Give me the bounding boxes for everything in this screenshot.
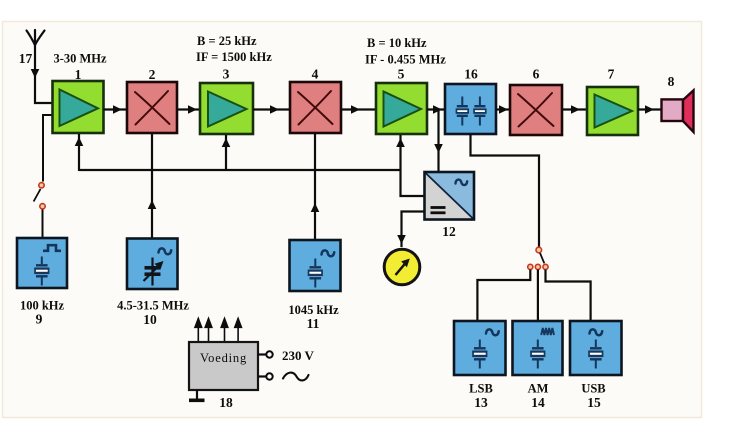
label 1 (75, 67, 82, 82)
label B = 10 kHz (367, 36, 427, 50)
svg-text:12: 12 (442, 224, 456, 239)
label 17 (19, 51, 33, 66)
wire block16 to mode switch (471, 134, 540, 247)
block 16 crystal filter (445, 84, 496, 134)
wire block1 to block2 (104, 105, 128, 114)
svg-text:AM: AM (528, 382, 549, 396)
svg-text:10: 10 (143, 312, 157, 327)
wire block2 LO input from block 10 (148, 133, 157, 238)
svg-text:Voeding: Voeding (200, 351, 247, 365)
label 9 (36, 312, 43, 327)
block 9 calibrator 100 kHz (17, 238, 67, 288)
label 13 (474, 395, 488, 410)
switch S1 (calibration) (34, 183, 46, 209)
label B = 25 kHz (197, 34, 257, 48)
svg-text:18: 18 (219, 395, 233, 410)
S-meter (384, 249, 420, 285)
block 14 AM crystal (513, 321, 563, 375)
svg-text:4: 4 (312, 67, 319, 82)
wire switch to block 9 (42, 210, 44, 239)
svg-text:11: 11 (307, 316, 320, 331)
ground (189, 390, 205, 402)
svg-text:15: 15 (587, 395, 601, 410)
mode switch S2 (528, 247, 548, 269)
block 2 mixer (127, 82, 177, 133)
wire detector 12 to S-meter (397, 212, 424, 248)
power supply output arrows (195, 319, 241, 342)
svg-text:USB: USB (581, 382, 605, 396)
label 1045 kHz (288, 303, 339, 317)
label IF = 1500 kHz (196, 50, 272, 64)
label LSB (469, 382, 493, 396)
svg-text:9: 9 (36, 312, 43, 327)
svg-text:6: 6 (533, 67, 540, 82)
svg-text:13: 13 (474, 395, 488, 410)
wire block5 to block16 (427, 105, 445, 114)
wire block6 to block7 (562, 105, 587, 114)
label 100 kHz (20, 299, 65, 313)
svg-text:230 V: 230 V (282, 348, 315, 363)
svg-text:4.5-31.5 MHz: 4.5-31.5 MHz (117, 299, 189, 313)
label 5 (398, 67, 405, 82)
label AM (528, 382, 549, 396)
block 15 USB crystal (570, 321, 622, 375)
label 16 (464, 67, 478, 82)
antenna 17 (27, 30, 45, 45)
svg-text:B = 10 kHz: B = 10 kHz (367, 36, 427, 50)
wire switch to block14 (537, 270, 539, 322)
wire AGC to block1 (75, 134, 84, 171)
block 10 VFO 4.5-31.5 MHz (127, 239, 178, 290)
block 5 IF amplifier (376, 83, 427, 134)
wire block4 LO input from block 11 (311, 133, 320, 240)
svg-text:14: 14 (531, 395, 545, 410)
label 4 (312, 67, 319, 82)
wire block1 lower stub to calibration switch (43, 115, 52, 182)
svg-text:16: 16 (464, 67, 478, 82)
svg-text:100 kHz: 100 kHz (20, 299, 65, 313)
svg-text:B = 25 kHz: B = 25 kHz (197, 34, 257, 48)
terminal 230V (258, 351, 273, 357)
label 12 (442, 224, 456, 239)
block 18 power supply Voeding (189, 342, 258, 390)
label 8 (668, 74, 675, 89)
wire antenna stem to block 1 input (31, 45, 52, 103)
svg-text:3: 3 (223, 67, 230, 82)
block 12 AM detector (425, 172, 475, 220)
label 3-30 MHz (53, 52, 107, 66)
wire switch to block13 (477, 270, 530, 322)
label 230 V (282, 348, 315, 363)
label 14 (531, 395, 545, 410)
terminal AC (258, 373, 273, 379)
block 7 AF amplifier (587, 87, 638, 135)
block 3 IF amplifier (200, 83, 253, 134)
label 15 (587, 395, 601, 410)
label IF - 0.455 MHz (365, 53, 446, 67)
block 1 RF amplifier (53, 81, 104, 133)
wire AGC to block3 (222, 135, 231, 171)
svg-text:IF - 0.455 MHz: IF - 0.455 MHz (365, 53, 446, 67)
svg-text:5: 5 (398, 67, 405, 82)
wire AGC to block5 and from detector 12 (396, 135, 424, 196)
AC tilde symbol (283, 373, 309, 381)
label 10 (143, 312, 157, 327)
svg-text:IF = 1500 kHz: IF = 1500 kHz (196, 50, 272, 64)
wire switch to block15 (546, 270, 591, 322)
block 11 oscillator 1045 kHz (290, 240, 341, 291)
svg-text:2: 2 (149, 67, 156, 82)
speaker 8 (662, 90, 694, 132)
svg-text:1045 kHz: 1045 kHz (288, 303, 339, 317)
label 11 (307, 316, 320, 331)
block 13 LSB crystal (454, 321, 506, 375)
label 2 (149, 67, 156, 82)
wire block4 to block5 (341, 105, 376, 114)
wire block7 to speaker (638, 105, 661, 114)
label 18 (219, 395, 233, 410)
svg-text:8: 8 (668, 74, 675, 89)
label 4.5-31.5 MHz (117, 299, 189, 313)
wire block3 to block4 (253, 105, 290, 114)
block 6 product detector mixer (510, 85, 562, 135)
label 6 (533, 67, 540, 82)
svg-text:LSB: LSB (469, 382, 493, 396)
wire junction drop to detector 12 (434, 110, 443, 173)
block 4 mixer (290, 82, 341, 133)
label 7 (608, 67, 615, 82)
svg-text:3-30 MHz: 3-30 MHz (53, 52, 107, 66)
wire block2 to block3 (177, 105, 200, 114)
svg-text:7: 7 (608, 67, 615, 82)
label 3 (223, 67, 230, 82)
wire block16 to block6 (496, 105, 510, 114)
svg-text:17: 17 (19, 51, 33, 66)
label USB (581, 382, 605, 396)
wire AGC bus (79, 169, 401, 171)
